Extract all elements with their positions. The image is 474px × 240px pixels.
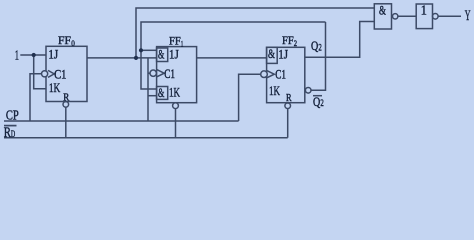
inverter U2 box bbox=[416, 4, 432, 29]
wire: FF2 R to RD bus bbox=[287, 109, 289, 138]
svg-text:FF: FF bbox=[58, 33, 71, 47]
svg-text:C1: C1 bbox=[164, 66, 175, 81]
FF2 Q2-bar output bubble bbox=[305, 88, 311, 94]
svg-text:2: 2 bbox=[320, 98, 323, 108]
FF1 K-input AND box bbox=[157, 87, 168, 100]
FF2 clock dynamic-input triangle bbox=[267, 71, 275, 78]
junction node: Q0 to top wire bbox=[134, 56, 138, 60]
svg-text:0: 0 bbox=[71, 38, 75, 48]
wire: FF1 R to RD bus bbox=[175, 109, 177, 138]
wire: FF0 Q0 output to FF1 AND inputs bbox=[87, 57, 157, 59]
wire: FF0 R to RD bus bbox=[65, 107, 67, 138]
svg-text:Q: Q bbox=[313, 95, 320, 109]
svg-text:&: & bbox=[158, 47, 164, 62]
wire: CP riser to FF0 C1 bbox=[30, 74, 42, 121]
FF1 clock dynamic-input triangle bbox=[157, 70, 164, 77]
FF1 C1 input bubble bbox=[150, 70, 156, 76]
FF2 R input bubble bbox=[285, 103, 291, 109]
RD-bar label overbar bbox=[4, 125, 17, 127]
inverter U2 output bubble bbox=[433, 13, 439, 19]
wire: branch to FF1 lower AND input bbox=[148, 95, 157, 97]
wire: feedback branch to FF1 upper AND bbox=[141, 49, 157, 51]
wire: branch 1 to FF0 K bbox=[34, 55, 46, 89]
wire: branch to FF1 C1 bubble bbox=[148, 72, 150, 74]
svg-text:C1: C1 bbox=[275, 66, 286, 81]
wire: Q2-bar to top feedback wire 2 bbox=[311, 22, 326, 90]
svg-text:2: 2 bbox=[318, 42, 321, 52]
svg-text:2: 2 bbox=[294, 38, 297, 48]
svg-text:Q: Q bbox=[311, 39, 318, 53]
FF0 clock dynamic-input triangle bbox=[48, 70, 54, 77]
svg-text:1: 1 bbox=[15, 48, 19, 63]
svg-text:1J: 1J bbox=[48, 47, 58, 62]
wire: top feedback wire 2 from riser to FF1 gates bbox=[141, 22, 326, 89]
svg-text:1K: 1K bbox=[269, 83, 280, 98]
wire: CP bus bbox=[4, 120, 239, 122]
svg-text:1J: 1J bbox=[278, 47, 288, 62]
FF2 J-input AND box bbox=[267, 47, 278, 63]
FF1 J-input AND box bbox=[157, 48, 168, 62]
flip-flop FF2 box bbox=[267, 47, 305, 102]
svg-text:&: & bbox=[158, 85, 164, 100]
svg-text:R: R bbox=[63, 93, 69, 104]
svg-text:&: & bbox=[379, 2, 386, 17]
junction node: feedback to FF1 upper AND bbox=[139, 48, 143, 52]
svg-text:CP: CP bbox=[6, 108, 19, 123]
wire: Q0 riser to top feedback wire 1 bbox=[136, 8, 374, 58]
svg-text:1: 1 bbox=[421, 3, 427, 18]
junction node: 1-input branch bbox=[32, 53, 36, 57]
FF2 C1 input bubble bbox=[261, 71, 268, 78]
svg-text:Y: Y bbox=[465, 8, 471, 24]
svg-text:D: D bbox=[11, 129, 16, 139]
wire: inverter output to Y bbox=[438, 15, 461, 17]
flip-flop FF1 box bbox=[157, 47, 197, 103]
wire: vertical x=148 Q0 tap / CP riser FF1 bbox=[147, 58, 149, 121]
wire: input 1 to FF0 J bbox=[20, 54, 46, 56]
FF0 R input bubble bbox=[63, 102, 69, 108]
svg-text:1: 1 bbox=[181, 38, 184, 48]
wire: RD-bar bus bbox=[4, 137, 288, 139]
svg-text:FF: FF bbox=[282, 33, 294, 47]
svg-text:&: & bbox=[268, 46, 275, 61]
svg-text:FF: FF bbox=[169, 34, 181, 48]
svg-text:1J: 1J bbox=[169, 47, 179, 62]
wire: CP riser to FF2 C1 bbox=[239, 74, 261, 121]
wire: FF1 Q1 output to FF2 AND bbox=[197, 57, 267, 59]
svg-text:1K: 1K bbox=[169, 85, 180, 100]
FF1 R input bubble bbox=[173, 103, 179, 109]
NAND U1 output bubble bbox=[393, 14, 398, 19]
wire: NAND output to inverter bbox=[398, 15, 416, 17]
Q2-bar label overbar bbox=[313, 95, 322, 97]
svg-text:1K: 1K bbox=[49, 80, 61, 95]
flip-flop FF0 box bbox=[46, 46, 87, 101]
wire: FF2 Q2 output to NAND lower input bbox=[305, 22, 375, 58]
FF0 C1 input bubble bbox=[42, 71, 48, 77]
svg-text:R: R bbox=[286, 93, 292, 104]
NAND gate U1 box bbox=[374, 4, 391, 29]
